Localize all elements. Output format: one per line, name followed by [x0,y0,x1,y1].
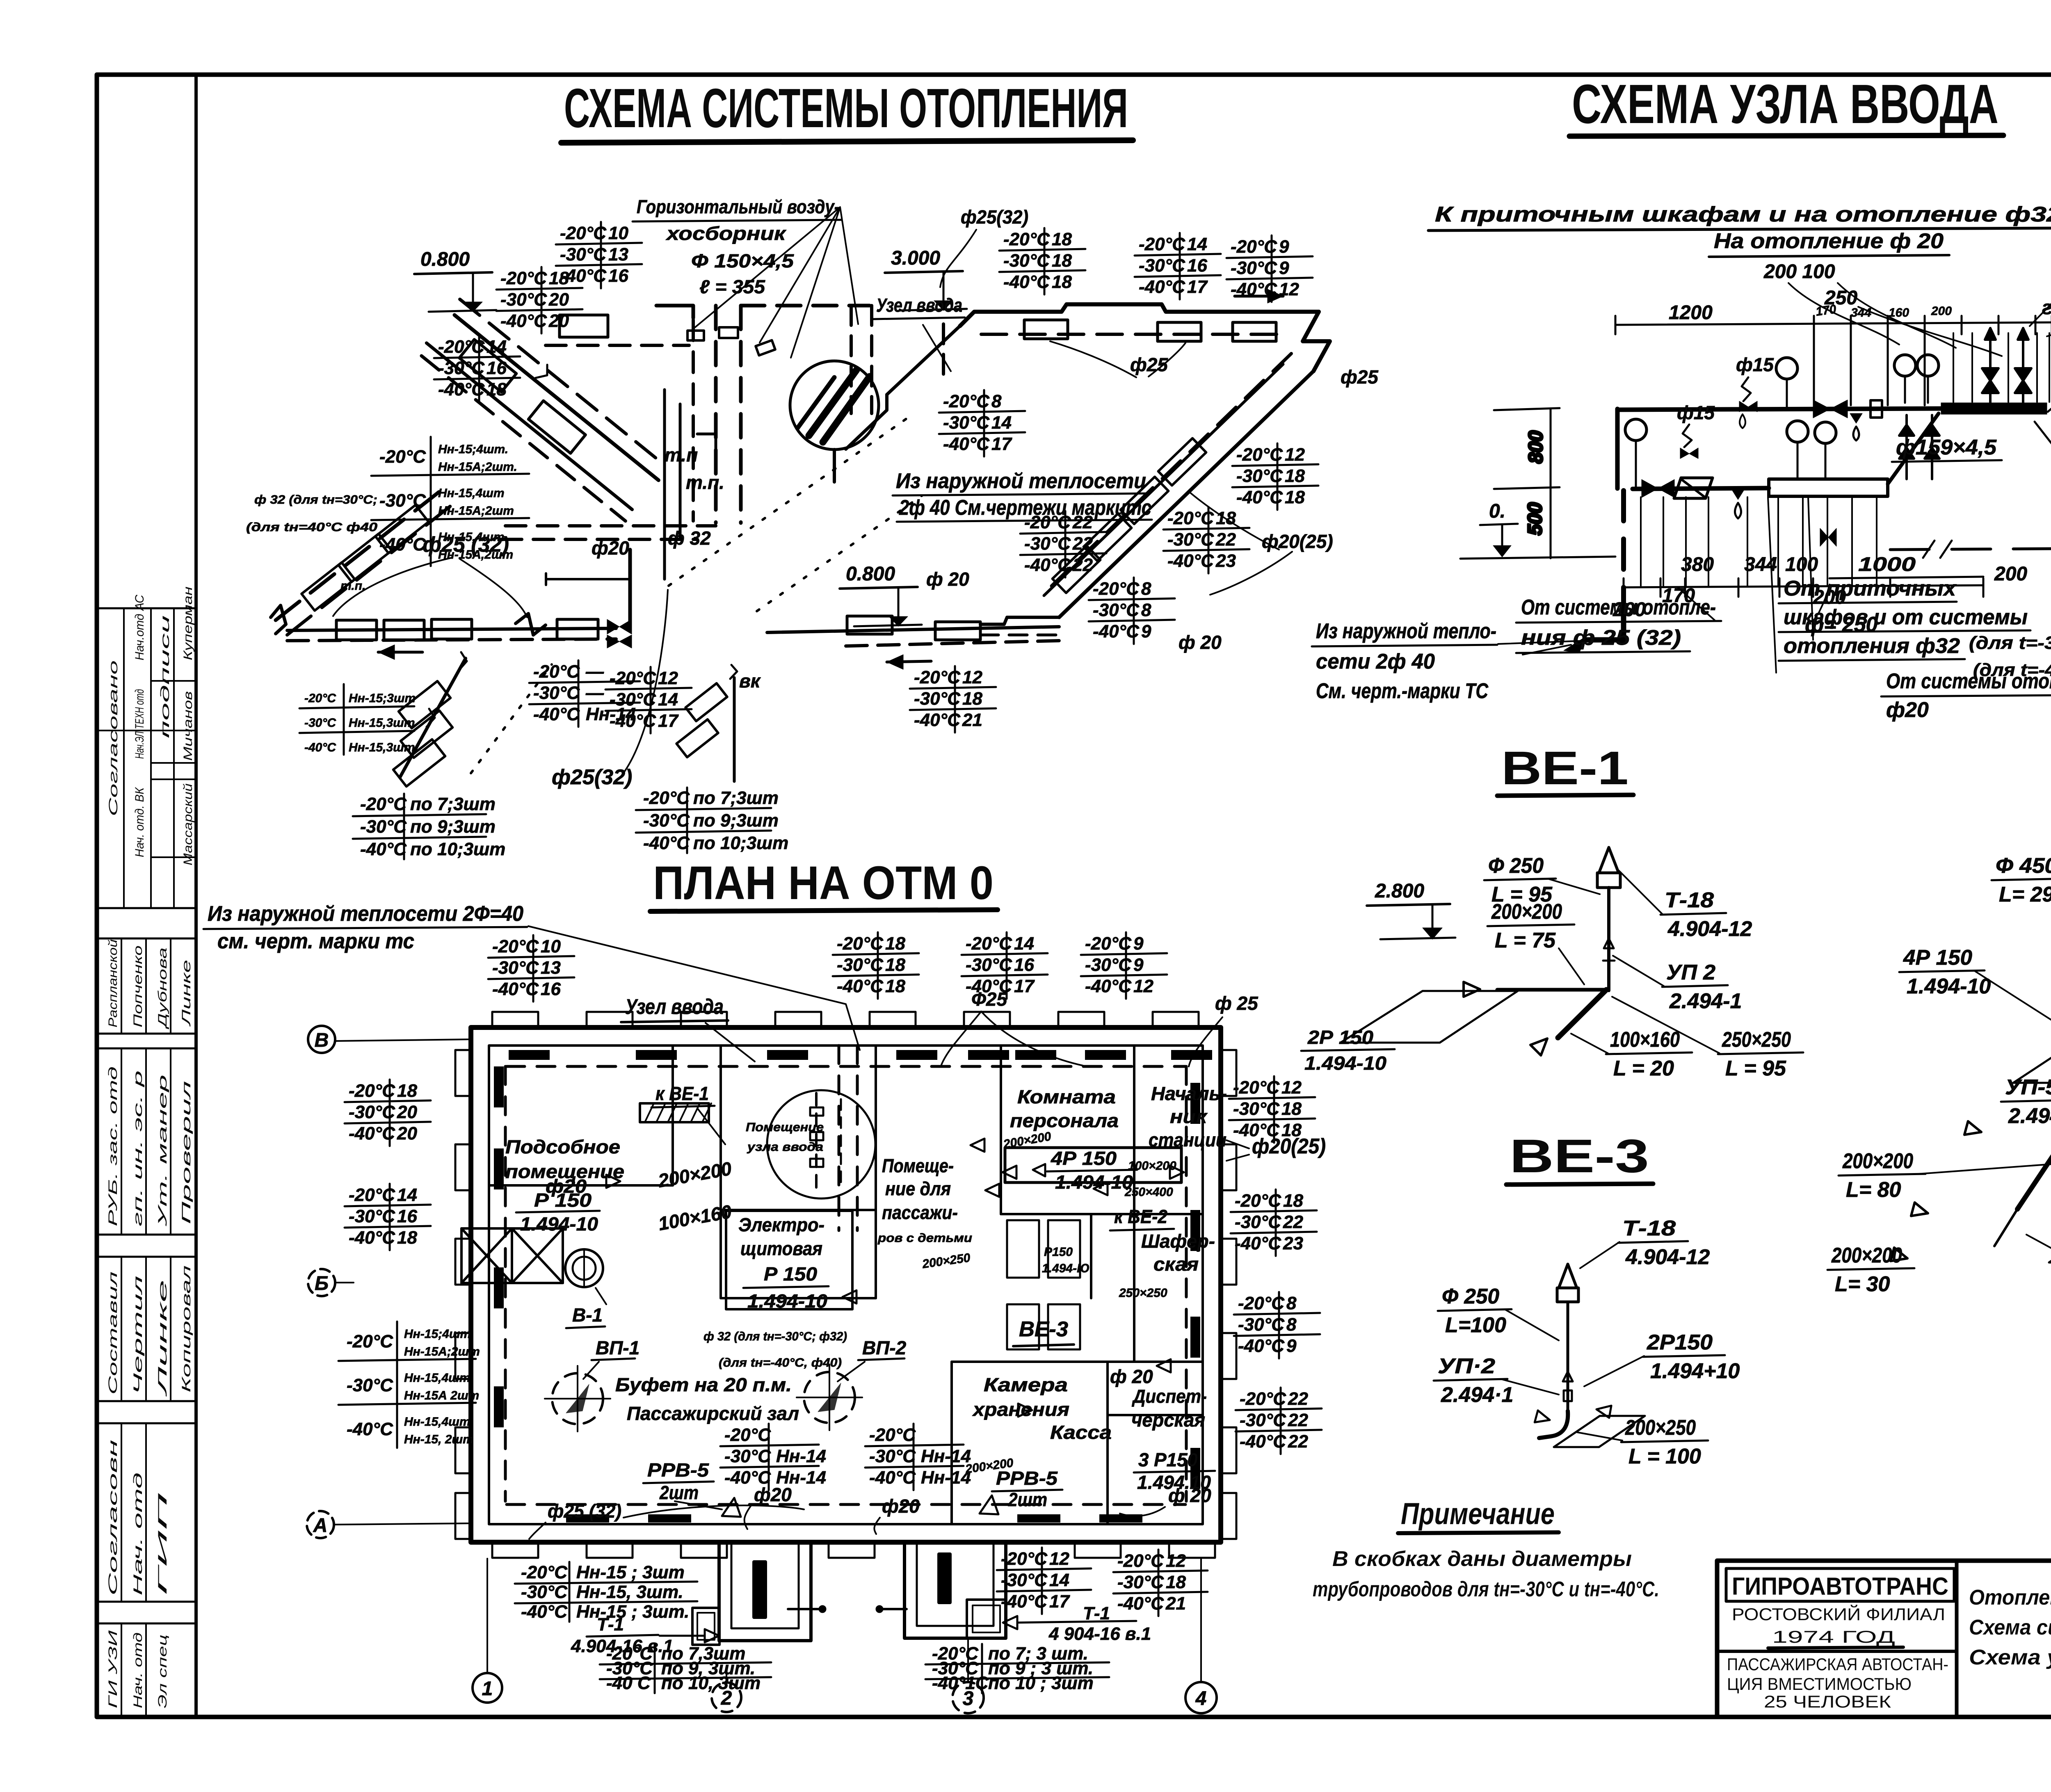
svg-text:L= 80: L= 80 [1846,1178,1901,1202]
svg-text:ЦИЯ ВМЕСТИМОСТЬЮ: ЦИЯ ВМЕСТИМОСТЬЮ [1727,1674,1912,1694]
svg-text:-20°С: -20°С [349,1185,395,1205]
label ot sistemy otopleniya f25 [1516,596,1721,653]
svg-text:250×400: 250×400 [1124,1185,1173,1199]
table temperatures 20/20/20 [496,267,582,333]
svg-text:УП·2: УП·2 [1438,1354,1495,1378]
pipe diagonal between collectors [1888,413,1939,484]
svg-text:18: 18 [885,934,905,954]
svg-text:Составил: Составил [106,1272,120,1395]
svg-text:Нн-15А;2шт: Нн-15А;2шт [404,1345,480,1358]
svg-text:2шт: 2шт [659,1482,699,1503]
svg-text:ПАССАЖИРСКАЯ АВТОСТАН-: ПАССАЖИРСКАЯ АВТОСТАН- [1727,1655,1948,1674]
table below po7 right [925,1644,1109,1693]
svg-text:8: 8 [1141,579,1151,599]
svg-text:-20°С: -20°С [379,447,426,467]
stamp outer box [1717,1561,2051,1717]
svg-text:Нн-14: Нн-14 [921,1446,971,1466]
svg-text:-40°С: -40°С [533,704,580,724]
svg-text:Нн-14: Нн-14 [776,1446,826,1466]
svg-text:-20°С: -20°С [643,788,690,808]
svg-text:380: 380 [1681,554,1714,575]
svg-text:ф 20: ф 20 [1110,1366,1153,1387]
VE-1 roof cone [1599,847,1619,873]
device on upper pipe [1871,400,1882,418]
svg-text:18: 18 [1166,1572,1186,1592]
signature strip rotated labels [106,587,195,1708]
f25 leader curves [941,1011,981,1065]
svg-text:9: 9 [1286,1336,1297,1356]
svg-text:-30°С: -30°С [521,1582,568,1602]
svg-text:-30°С: -30°С [1117,1572,1164,1592]
pipe right wing outline [846,289,1330,635]
svg-text:4Р 150: 4Р 150 [1903,946,1972,970]
svg-text:отопления ф32: отопления ф32 [1784,634,1960,658]
svg-text:ВП-2: ВП-2 [862,1337,907,1358]
svg-text:Нн-15;4шт.: Нн-15;4шт. [438,443,508,456]
svg-text:Нн-15;3шт: Нн-15;3шт [349,692,416,705]
svg-text:2шт: 2шт [1008,1489,1047,1510]
svg-text:ф 32 (для tн=-30°С; ф32): ф 32 (для tн=-30°С; ф32) [703,1330,847,1343]
svg-text:шкафов и от системы: шкафов и от системы [1784,605,2028,629]
label uzel vvoda plan [621,995,755,1062]
svg-text:Согласовн: Согласовн [106,1440,120,1596]
svg-text:Нач. отд. ВК: Нач. отд. ВК [133,787,146,857]
label f159x45 [1892,436,2002,462]
svg-text:-30°С: -30°С [349,1206,395,1226]
dotted diagonal low [471,664,552,773]
svg-text:16: 16 [1187,256,1207,276]
svg-text:Узел ввода: Узел ввода [625,995,724,1019]
svg-text:ф20(25): ф20(25) [1262,531,1333,552]
stamp org name box [1726,1568,1954,1601]
VE-3 duct ticks [1563,1372,1573,1381]
svg-text:12: 12 [1285,445,1305,465]
VE-3 label 2R150 [1643,1331,1740,1383]
svg-text:-30°С: -30°С [560,244,607,265]
svg-text:Касса: Касса [1050,1422,1112,1443]
VE-2 label 4R150 [1899,946,1991,998]
label f20 vest1 [745,1484,792,1529]
axis 3 [952,1639,984,1713]
svg-text:16: 16 [1014,955,1034,975]
VE-3 open arrows [1535,1411,1551,1426]
svg-text:14: 14 [1049,1570,1069,1590]
svg-text:ф25 (32): ф25 (32) [548,1500,621,1522]
svg-text:-20°С: -20°С [533,662,580,682]
svg-text:Линке: Линке [180,960,193,1027]
svg-text:-40°С: -40°С [837,976,884,996]
svg-text:2.494·1: 2.494·1 [2008,1104,2051,1128]
svg-text:-20°С: -20°С [914,667,961,687]
svg-text:-20°С: -20°С [349,1081,395,1101]
table temperatures 22/22/22 [1020,511,1106,578]
dashed axis line [1890,547,2051,550]
table below 12/14/17 [997,1548,1091,1614]
svg-text:-30°С: -30°С [1231,258,1277,278]
svg-text:по 7;3шт: по 7;3шт [410,794,496,814]
svg-text:ф15: ф15 [1736,354,1774,375]
svg-text:Р 150: Р 150 [534,1189,592,1211]
note heading underline [1398,1532,1559,1533]
circled uzel vvoda detail [767,1090,875,1198]
table above plan 9/9/12 [1081,932,1167,999]
svg-text:-40°С: -40°С [1238,1336,1285,1356]
left elevation dimension [1460,408,1615,559]
VE-1 level mark 2.800 [1367,880,1455,939]
svg-text:-30°С: -30°С [1139,256,1185,276]
svg-text:СХЕМА УЗЛА ВВОДА: СХЕМА УЗЛА ВВОДА [1572,73,1998,135]
svg-text:сети 2ф 40: сети 2ф 40 [1316,650,1435,673]
svg-text:Распланской: Распланской [106,939,120,1027]
svg-text:От приточных: От приточных [1784,577,1957,600]
VE-1 ceiling plane [1341,991,1518,1043]
svg-text:10: 10 [608,223,628,243]
VE-1 label 100x160 [1606,1028,1692,1080]
svg-text:20: 20 [397,1102,417,1122]
VE-3 label UP-2 [1434,1354,1513,1407]
svg-text:пассажи-: пассажи- [882,1202,958,1223]
table above plan 18/18/18 [833,932,919,999]
svg-text:Копировал: Копировал [180,1265,193,1393]
svg-text:-20°С: -20°С [1117,1551,1164,1571]
svg-text:персонала: персонала [1010,1110,1119,1131]
svg-text:-30°С: -30°С [1093,600,1140,620]
svg-text:18: 18 [885,976,905,996]
svg-text:Дубнова: Дубнова [156,947,169,1030]
radiators on left band [301,562,355,610]
table temperatures 8/8/9 [1089,578,1175,644]
VE-2 label UP-5 [2001,1075,2051,1128]
svg-text:-30°С: -30°С [347,1375,393,1395]
table left 14/16/18 [345,1184,431,1250]
svg-text:Нн-15, 2шт: Нн-15, 2шт [404,1433,474,1446]
VE-2 left plane [2013,1034,2051,1083]
svg-text:Камера: Камера [984,1374,1068,1395]
svg-text:Буфет на 20 п.м.: Буфет на 20 п.м. [615,1374,792,1395]
VE-1 thick diagonal [1558,990,1606,1038]
svg-text:-30°С: -30°С [1001,1570,1048,1590]
svg-text:-30°С: -30°С [1240,1410,1286,1430]
svg-text:РРВ-5: РРВ-5 [996,1468,1058,1489]
svg-text:А: А [313,1515,328,1536]
hatched duct [640,1103,709,1122]
svg-text:2: 2 [721,1687,732,1709]
svg-text:Помеще-: Помеще- [882,1155,954,1176]
svg-text:22: 22 [1283,1212,1303,1232]
VE-1 label F250 [1484,854,1556,906]
svg-text:Комната: Комната [1017,1086,1116,1107]
svg-text:См. черт.-марки ТС: См. черт.-марки ТС [1316,679,1489,703]
svg-text:-30°С: -30°С [304,716,336,730]
svg-text:УП 2: УП 2 [1666,961,1715,984]
label horizontal air collector [633,196,858,358]
svg-text:21: 21 [962,710,982,730]
drops below collector [1777,497,1779,586]
svg-text:14: 14 [1014,934,1034,954]
svg-text:хосборник: хосборник [665,223,787,244]
pipe lower radiator row [287,550,1059,669]
svg-text:100×160: 100×160 [1610,1028,1680,1052]
table temperatures 14/16/17 [1135,233,1221,299]
table in hall dash Nn-14 right [865,1424,971,1490]
svg-text:Примечание: Примечание [1401,1497,1555,1531]
vestibule annex right [967,1600,1006,1638]
svg-text:Р150: Р150 [1044,1245,1073,1259]
svg-text:ф20(25): ф20(25) [1252,1135,1326,1158]
plan inner wall line [489,1046,1203,1524]
svg-text:В: В [315,1030,329,1051]
svg-text:3 Р150: 3 Р150 [1138,1449,1198,1470]
svg-text:100×200: 100×200 [1128,1159,1176,1173]
svg-text:100: 100 [1785,554,1818,575]
table right 18/22/23 [1231,1189,1317,1256]
svg-text:200×200: 200×200 [1491,900,1562,924]
table below Nn-15 3sht [515,1562,697,1622]
collector upper [1941,403,2047,414]
svg-text:гп. ин. эс. р: гп. ин. эс. р [131,1071,145,1226]
svg-text:-30°С: -30°С [500,290,547,310]
svg-text:-20°С: -20°С [521,1562,568,1582]
svg-text:ГИПРОАВТОТРАНС: ГИПРОАВТОТРАНС [1732,1573,1948,1600]
axis 2 [712,1667,741,1712]
svg-text:-30°С: -30°С [492,958,539,978]
svg-text:-30°С: -30°С [533,683,580,703]
svg-text:23: 23 [1215,551,1236,571]
svg-text:Нач.отд АС: Нач.отд АС [133,595,146,660]
gauge pair [1894,355,1916,376]
VE-2 open arrows lower [1964,1121,1983,1139]
VE-3 label 200x250 [1621,1416,1708,1468]
svg-text:22: 22 [1288,1410,1308,1430]
VE-1 label 250x250 [1718,1028,1803,1080]
svg-text:Т-18: Т-18 [1665,888,1714,912]
svg-text:25 ЧЕЛОВЕК: 25 ЧЕЛОВЕК [1764,1692,1891,1711]
svg-text:Из наружной теплосети 2Ф=40: Из наружной теплосети 2Ф=40 [208,902,523,926]
svg-text:L = 75: L = 75 [1495,929,1556,952]
svg-text:трубопроводов для tн=-30°С и t: трубопроводов для tн=-30°С и tн=-40°С. [1313,1577,1659,1601]
axis A [307,1511,471,1538]
svg-text:ГИП: ГИП [156,1493,169,1596]
svg-text:ВЕ-3: ВЕ-3 [1019,1317,1068,1341]
svg-text:-30°С: -30°С [1024,534,1071,554]
table right 22/22/22 [1236,1388,1322,1454]
wall columns top [492,1012,538,1028]
svg-text:черская: черская [1131,1409,1205,1431]
svg-text:20: 20 [548,290,569,310]
svg-text:-40°С: -40°С [1003,272,1050,292]
svg-text:-20°С: -20°С [1003,229,1050,249]
svg-text:22: 22 [1288,1431,1308,1452]
axis 1 [473,1559,502,1703]
svg-text:-40°С: -40°С [521,1602,568,1622]
svg-text:-40°С: -40°С [1117,1593,1164,1614]
table temperatures 18/22/23 [1163,507,1249,573]
svg-text:-30°С: -30°С [1085,955,1132,975]
svg-text:Схема узла ввода: Схема узла ввода [1969,1646,2051,1669]
gauges on lower pipe [1625,419,1647,441]
axis V [308,1026,471,1053]
svg-text:16: 16 [397,1206,417,1226]
svg-text:-40°С: -40°С [724,1468,771,1488]
open triangle leaders [606,1175,620,1188]
leader lines lower labels [1808,497,1813,640]
svg-text:-40°С: -40°С [869,1468,916,1488]
svg-text:к ВЕ-2: к ВЕ-2 [1114,1206,1167,1227]
svg-text:ВП-1: ВП-1 [596,1337,640,1358]
crossed box [461,1228,563,1283]
svg-text:18: 18 [1052,251,1072,271]
label na otoplenie f25 [2048,348,2051,412]
svg-text:Эл спец: Эл спец [156,1634,169,1708]
svg-text:-30°С: -30°С [1236,466,1283,486]
svg-text:Нн-15 ; 3шт: Нн-15 ; 3шт [576,1562,685,1582]
level mark 3.000 [885,247,967,310]
svg-text:—: — [585,662,604,682]
level mark 0.800 [414,249,496,312]
svg-text:1: 1 [482,1678,493,1700]
label 1494-10 elektro [726,1211,852,1312]
top dimension line [1615,316,2051,405]
svg-text:Схема системы отопления.: Схема системы отопления. [1969,1616,2051,1639]
svg-text:Диспет-: Диспет- [1131,1386,1207,1407]
svg-text:16: 16 [541,979,561,999]
svg-text:16: 16 [486,358,507,378]
svg-text:9: 9 [1141,621,1151,641]
label VE-3 [1013,1317,1074,1346]
svg-text:23: 23 [1283,1233,1303,1253]
svg-text:см. черт. марки тс: см. черт. марки тс [217,929,414,953]
svg-text:0.800: 0.800 [420,249,470,270]
svg-text:3: 3 [963,1688,974,1710]
svg-text:От системы отопления: От системы отопления [1886,669,2051,693]
svg-text:ф 25: ф 25 [1215,993,1258,1014]
label RRV-5 right [980,1468,1062,1514]
svg-text:Нн-15, 3шт.: Нн-15, 3шт. [576,1582,683,1602]
svg-text:-40°С: -40°С [1240,1431,1286,1452]
pipe entry elbow [1587,616,1624,640]
svg-text:2.494·1: 2.494·1 [1441,1383,1513,1407]
svg-text:-20°С: -20°С [966,934,1012,954]
wall columns right [1220,1050,1236,1096]
svg-text:17: 17 [658,711,679,731]
heading underline [1506,1184,1653,1185]
circled compensator detail [790,361,879,482]
label k VE-2 [1110,1206,1174,1230]
svg-text:Нн-15,4шт: Нн-15,4шт [404,1371,470,1385]
svg-text:-40°С: -40°С [966,976,1012,996]
svg-text:18: 18 [1285,466,1305,486]
label f25(32) bottom [529,1500,804,1539]
svg-text:-20°С: -20°С [492,936,539,956]
svg-text:22: 22 [1215,530,1236,550]
svg-text:200×250: 200×250 [1625,1416,1696,1440]
svg-text:-20°С: -20°С [1238,1293,1285,1313]
svg-text:ф15: ф15 [1677,402,1715,423]
svg-text:4 904-16 в.1: 4 904-16 в.1 [1048,1624,1151,1644]
svg-text:-20°С: -20°С [347,1331,393,1351]
svg-text:Массарский: Массарский [181,783,195,865]
svg-text:17: 17 [991,434,1012,454]
duct 4R150 [1005,1148,1181,1182]
svg-text:Ф 250: Ф 250 [1442,1285,1499,1308]
svg-text:-20°С: -20°С [1235,1191,1281,1211]
svg-text:-40°С: -40°С [943,434,990,454]
risers between collectors [1899,415,1914,479]
svg-text:18: 18 [1285,487,1305,507]
svg-text:-30°С: -30°С [943,413,990,433]
svg-text:-40 С: -40 С [606,1673,651,1693]
svg-text:Подсобное: Подсобное [505,1136,620,1157]
svg-text:На отопление ф 20: На отопление ф 20 [1714,229,1944,253]
svg-text:-40°С: -40°С [500,311,547,331]
risers with valves above collector [1982,328,1998,403]
svg-text:Нач.ЭЛ ТЕХН отд: Нач.ЭЛ ТЕХН отд [133,689,146,759]
table temperatures 12/18/18 [1232,443,1318,510]
svg-text:12: 12 [1049,1549,1069,1569]
svg-text:1.494+10: 1.494+10 [1650,1359,1740,1383]
svg-text:18: 18 [1283,1191,1303,1211]
valve on upper pipe [1813,400,1830,418]
svg-text:500: 500 [1524,502,1546,535]
VE-1 label 200x200 [1487,900,1574,952]
svg-text:12: 12 [1281,1077,1302,1098]
label f20 kassa [1120,1485,1211,1516]
level mark 0.800 lower [840,563,922,626]
label R150 left [516,1189,600,1235]
label f25(32) top [940,206,1028,287]
pipe left diagonal band [271,484,460,635]
svg-text:-40°С: -40°С [360,839,407,859]
label iz naruzhnoy teploseti [1312,619,1497,703]
svg-text:8: 8 [1286,1293,1297,1313]
label T-1 right [1003,1603,1151,1644]
table temperatures 12/14/17 [605,667,692,733]
label L50x5 [2035,422,2051,453]
table left wide Nn-15 [338,1322,480,1448]
valve on drop [1820,528,1828,546]
svg-text:0.800: 0.800 [846,563,895,585]
svg-text:Попченко: Попченко [131,945,145,1027]
leader curves from dims [1788,283,1899,345]
svg-text:РУБ. зас. отд: РУБ. зас. отд [106,1066,120,1226]
svg-text:ние для: ние для [885,1178,951,1199]
VE-1 duct arrow marks [1604,938,1614,948]
VE-2 label F450 [1992,854,2051,906]
signature strip sub columns [97,608,196,1717]
heading underline [1497,795,1633,796]
svg-text:-30°С: -30°С [724,1446,771,1466]
vk element [676,665,737,781]
svg-text:РОСТОВСКИЙ ФИЛИАЛ: РОСТОВСКИЙ ФИЛИАЛ [1732,1604,1945,1624]
svg-text:Чертил: Чертил [131,1276,145,1395]
svg-text:1200: 1200 [1669,302,1713,324]
stamp divider left [1955,1561,1959,1717]
table sections po 7 [353,794,505,859]
svg-text:ПЛАН НА ОТМ 0: ПЛАН НА ОТМ 0 [653,857,994,909]
svg-text:-20°С: -20°С [1233,1077,1280,1098]
svg-text:Мичанов: Мичанов [181,691,195,761]
table temperatures 8/14/17 [939,390,1025,457]
pipe left riser [1615,409,1620,489]
svg-text:Отопление. План на отм.0.: Отопление. План на отм.0. [1969,1586,2051,1609]
svg-text:СХЕМА СИСТЕМЫ ОТОПЛЕНИЯ: СХЕМА СИСТЕМЫ ОТОПЛЕНИЯ [564,77,1128,139]
pipe wing A top chunk [546,306,693,345]
title underline [1569,135,2003,136]
svg-text:-20°С: -20°С [837,934,884,954]
VE-1 label UP2 [1662,961,1742,1013]
svg-text:18: 18 [1281,1099,1302,1119]
label k VE-1 [651,1083,725,1144]
